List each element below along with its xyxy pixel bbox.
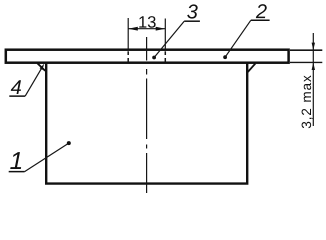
leader 4 arrowhead — [40, 64, 45, 70]
extension line top right — [290, 49, 322, 51]
dimension arrow left — [128, 27, 138, 31]
hole hidden line / extension line left — [127, 18, 129, 62]
dimension arrow right — [156, 27, 166, 31]
label 3 — [187, 4, 197, 18]
dimension text 13 — [139, 16, 155, 28]
dimension text 3,2 max — [302, 75, 313, 128]
weld fillet right — [248, 64, 256, 72]
plate (item 2 outline) — [6, 50, 289, 63]
dimension line 3,2 max — [312, 33, 314, 126]
leader 1 — [25, 143, 69, 172]
arrow down — [312, 43, 315, 51]
extension line bottom right — [290, 61, 322, 63]
leader 2 — [225, 20, 251, 57]
weld fillet left (item 4) — [37, 63, 45, 71]
centerline — [146, 37, 148, 193]
leader 3 — [154, 21, 184, 57]
dimension line 13 — [128, 28, 165, 30]
arrow up — [312, 62, 315, 70]
label 4 — [11, 80, 21, 94]
label 1 — [10, 152, 21, 169]
label 2 — [256, 4, 267, 18]
leader 4 — [25, 66, 43, 96]
hole hidden line / extension line right — [164, 19, 166, 63]
body (item 1 outline) — [46, 63, 247, 184]
